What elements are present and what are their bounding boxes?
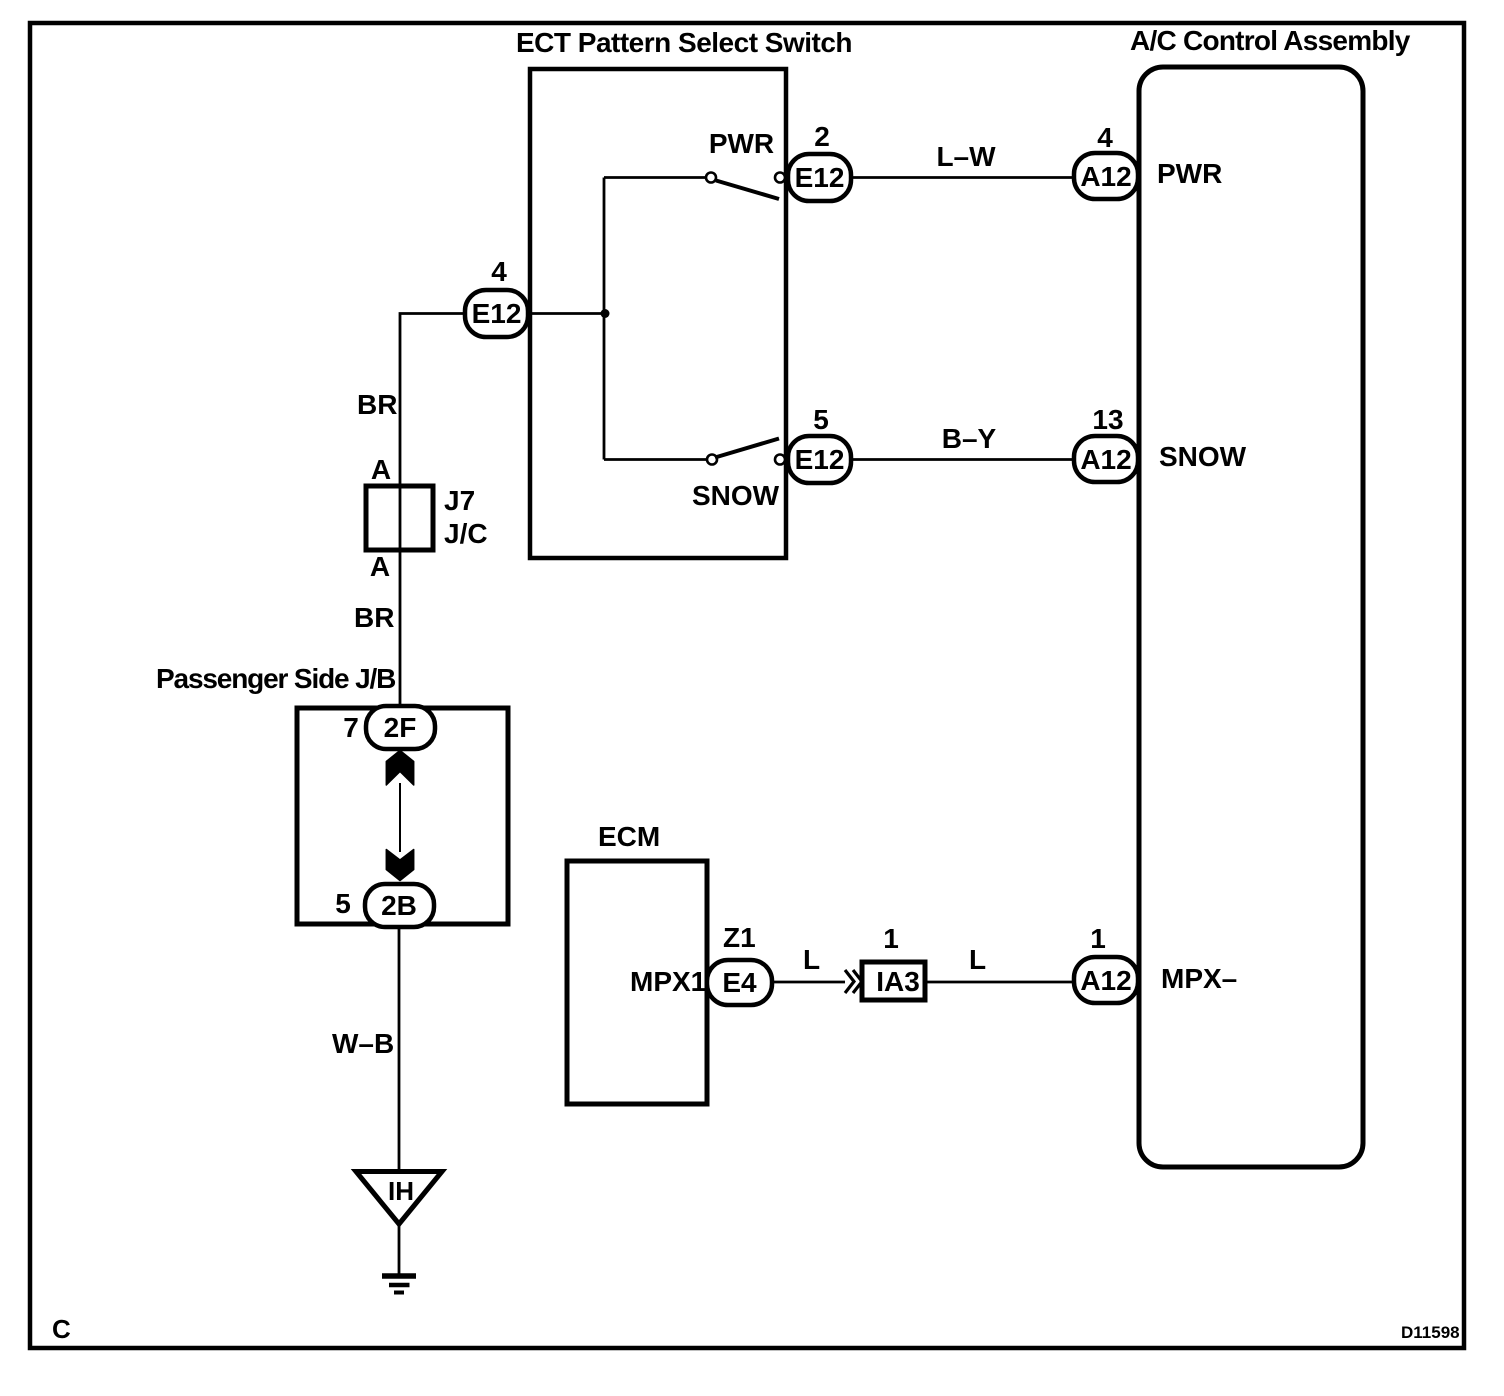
- wire L-W: [851, 176, 1074, 179]
- wire to SNOW contact: [604, 458, 707, 461]
- svg-text:7: 7: [343, 712, 359, 743]
- svg-text:4: 4: [1097, 122, 1113, 153]
- wire to PWR contact: [604, 176, 706, 179]
- splice chevron: [845, 970, 862, 993]
- svg-text:L: L: [969, 944, 986, 975]
- svg-text:W–B: W–B: [332, 1028, 394, 1059]
- svg-text:D11598: D11598: [1401, 1323, 1460, 1342]
- ground IH triangle: [356, 1172, 442, 1225]
- svg-text:2: 2: [814, 121, 830, 152]
- svg-text:5: 5: [335, 888, 351, 919]
- svg-text:MPX–: MPX–: [1161, 963, 1237, 994]
- connector E12 pin4: [465, 290, 528, 337]
- wire B-Y: [851, 458, 1074, 461]
- svg-text:ECT Pattern Select Switch: ECT Pattern Select Switch: [516, 27, 852, 58]
- svg-text:IA3: IA3: [876, 966, 920, 997]
- junction connector IA3: [862, 962, 925, 1000]
- wire W-B from 2B to ground: [398, 927, 401, 1172]
- svg-text:2B: 2B: [381, 890, 417, 921]
- svg-text:A12: A12: [1080, 161, 1131, 192]
- svg-text:5: 5: [813, 404, 829, 435]
- wire between arrows: [399, 783, 401, 852]
- box ECT Pattern Select Switch: [530, 69, 786, 558]
- wire L to A12: [927, 981, 1074, 984]
- svg-text:C: C: [52, 1314, 71, 1344]
- svg-text:B–Y: B–Y: [942, 423, 997, 454]
- svg-text:E12: E12: [795, 444, 845, 475]
- switch PWR contact circle left: [706, 173, 716, 183]
- connector A12 pin4: [1074, 153, 1138, 199]
- svg-text:SNOW: SNOW: [692, 480, 780, 511]
- ground bars: [382, 1273, 416, 1279]
- svg-text:PWR: PWR: [709, 128, 774, 159]
- svg-text:MPX1: MPX1: [630, 966, 706, 997]
- svg-text:BR: BR: [354, 602, 394, 633]
- svg-text:IH: IH: [388, 1176, 414, 1206]
- connector A12 pin13: [1074, 436, 1138, 482]
- svg-text:13: 13: [1092, 404, 1123, 435]
- svg-text:A: A: [370, 551, 390, 582]
- svg-text:2F: 2F: [384, 712, 417, 743]
- wire BR from E12 pin4 down to J7: [400, 314, 465, 709]
- svg-text:A: A: [371, 454, 391, 485]
- svg-text:1: 1: [1090, 923, 1106, 954]
- switch PWR blade: [716, 181, 779, 200]
- svg-text:J7: J7: [444, 485, 475, 516]
- switch PWR contact circle right: [775, 173, 785, 183]
- connector A12 pin1: [1074, 957, 1138, 1003]
- svg-text:SNOW: SNOW: [1159, 441, 1247, 472]
- box A/C Control Assembly: [1139, 67, 1363, 1167]
- svg-text:Z1: Z1: [723, 922, 756, 953]
- svg-text:E12: E12: [472, 298, 522, 329]
- connector E12 pin5: [788, 436, 851, 483]
- svg-text:4: 4: [491, 256, 507, 287]
- box Passenger Side J/B: [297, 708, 508, 924]
- svg-text:J/C: J/C: [444, 518, 488, 549]
- junction connector J7 J/C: [366, 486, 433, 550]
- switch SNOW contact circle left: [707, 455, 717, 465]
- svg-text:1: 1: [883, 923, 899, 954]
- svg-text:BR: BR: [357, 389, 397, 420]
- wire L from E4: [772, 981, 845, 984]
- junction dot: [601, 309, 610, 318]
- svg-text:E4: E4: [722, 967, 757, 998]
- box ECM: [567, 861, 707, 1104]
- svg-text:A/C Control Assembly: A/C Control Assembly: [1130, 25, 1411, 56]
- arrow down: [386, 850, 413, 881]
- svg-text:PWR: PWR: [1157, 158, 1222, 189]
- svg-text:A12: A12: [1080, 444, 1131, 475]
- svg-text:L–W: L–W: [936, 141, 996, 172]
- switch SNOW blade: [715, 439, 779, 458]
- svg-text:L: L: [803, 944, 820, 975]
- svg-text:ECM: ECM: [598, 821, 660, 852]
- switch SNOW contact circle right: [775, 455, 785, 465]
- svg-text:Passenger Side J/B: Passenger Side J/B: [156, 663, 395, 694]
- connector E4: [707, 960, 772, 1005]
- wire ground stem: [398, 1224, 401, 1276]
- connector 2B: [365, 884, 434, 927]
- connector 2F: [366, 706, 435, 749]
- connector E12 pin2: [788, 154, 851, 201]
- arrow up: [386, 751, 413, 786]
- wire ECT internal bus: [603, 178, 606, 460]
- svg-text:A12: A12: [1080, 965, 1131, 996]
- wire E12 pin4 to junction: [530, 312, 605, 315]
- svg-text:E12: E12: [795, 162, 845, 193]
